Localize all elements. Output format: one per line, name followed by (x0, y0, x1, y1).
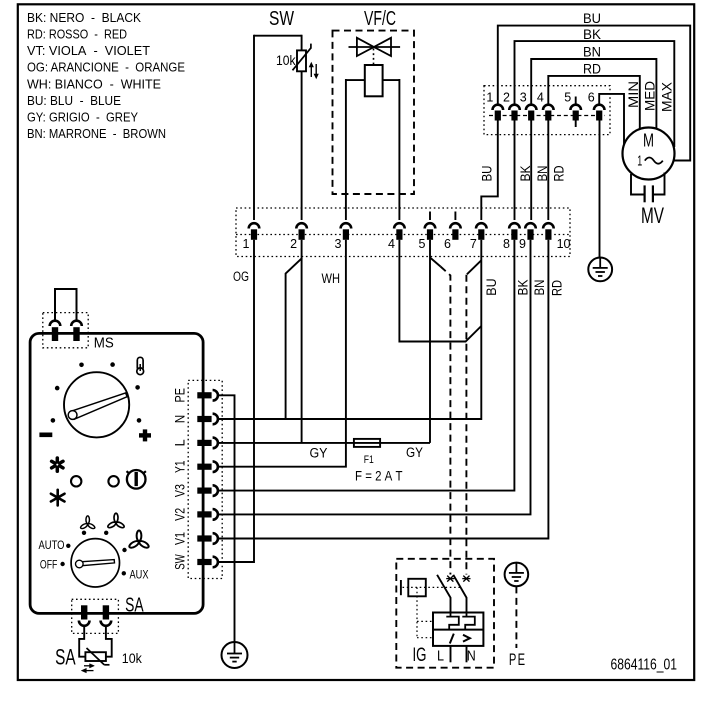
svg-text:WH: BIANCO - WHITE: WH: BIANCO - WHITE (27, 76, 161, 91)
svg-text:OG: ARANCIONE - ORANGE: OG: ARANCIONE - ORANGE (27, 60, 185, 75)
valve actuator dotted link (373, 49, 375, 65)
terminal block pin 1 (493, 105, 504, 110)
connector SA dotted box (72, 599, 119, 633)
fan dial position dots (60, 531, 126, 576)
wire strip 8 down to V3 row (BK) (218, 240, 515, 491)
svg-text:1: 1 (243, 237, 250, 251)
earth PE circle (505, 563, 529, 587)
svg-text:RD: RD (583, 60, 601, 76)
IG contact star L (446, 576, 454, 582)
svg-text:VF/C: VF/C (364, 8, 396, 30)
svg-text:4: 4 (537, 91, 544, 105)
terminal block pin 6 (594, 105, 605, 110)
wire strip 2 diagonal to N row (218, 240, 302, 419)
valve VF/C dashed enclosure (333, 31, 415, 194)
svg-text:BU: BU (583, 10, 601, 26)
svg-text:V3: V3 (173, 484, 188, 497)
svg-text:6864116_01: 6864116_01 (611, 657, 678, 674)
terminal panel L (197, 440, 211, 446)
switch IG dashed box (396, 559, 494, 668)
svg-text:AUTO: AUTO (39, 538, 65, 552)
svg-text:4: 4 (388, 237, 395, 251)
motor MV circle (623, 128, 675, 180)
valve body bowtie (349, 38, 401, 56)
IG coil square (401, 579, 426, 597)
svg-text:BU: BU (484, 278, 499, 295)
IG contact star N (462, 576, 470, 582)
svg-text:MIN: MIN (626, 81, 641, 108)
stub above strip pin 6 (454, 212, 456, 221)
terminal strip pin 9 (525, 223, 536, 228)
motor 1-phase mark (637, 154, 663, 170)
thermostat dial pointer (68, 393, 127, 420)
dashed wire PE down (515, 586, 517, 648)
svg-text:2: 2 (290, 237, 297, 251)
wire strip 10 down to V1 row (RD) (218, 240, 549, 539)
svg-text:MED: MED (642, 81, 657, 111)
svg-text:F1: F1 (364, 454, 374, 466)
svg-text:9: 9 (519, 237, 526, 251)
thermostat scale dots (51, 362, 142, 422)
svg-text:N: N (173, 415, 188, 424)
dashed wire strip 5 to IG L pole (430, 258, 441, 267)
label plus (139, 429, 151, 441)
icon small circle left (71, 476, 81, 486)
terminal strip pin 8 (509, 223, 520, 228)
terminal panel SW (197, 559, 211, 565)
wire strip 4 down and over to BU node (399, 240, 481, 342)
wire BK from block 2 to motor MAX side (515, 41, 675, 147)
svg-text:SW: SW (173, 554, 188, 570)
wire VF/C right to terminal 4 (398, 79, 400, 220)
svg-text:IG: IG (413, 645, 427, 666)
fan dial pointer (76, 560, 115, 568)
terminal strip pin 1 (249, 223, 260, 228)
terminal strip pin 3 (341, 223, 352, 228)
wire SA pin2 to thermistor (106, 626, 112, 657)
svg-text:F = 2 A T: F = 2 A T (355, 468, 403, 483)
svg-text:6: 6 (588, 91, 595, 105)
wire strip 1 down to SW row (OG) (218, 240, 254, 562)
svg-text:BK: BK (583, 26, 602, 42)
terminal strip dotted box (236, 208, 570, 257)
wire strip 7 down to N row (BU) (218, 240, 481, 419)
svg-text:L: L (173, 439, 188, 446)
wire strip 9 down to V2 row (BN) (218, 240, 531, 515)
svg-text:RD: RD (552, 165, 567, 181)
svg-text:MV: MV (641, 203, 664, 228)
arrows up-down beside SW thermistor (309, 63, 318, 79)
svg-text:GY: GRIGIO - GREY: GY: GRIGIO - GREY (27, 110, 138, 125)
stub above block pin 5 (575, 97, 577, 105)
svg-text:10k: 10k (122, 650, 143, 666)
svg-text:BN: BN (532, 280, 547, 296)
icon snowflake star heating (51, 490, 65, 506)
terminal strip pin 6 (450, 223, 461, 228)
stub below block pin 5 (575, 121, 577, 128)
terminal SA pin 1 (81, 605, 87, 619)
connector MS pins (55, 289, 77, 321)
icon snowflake cooling (52, 458, 63, 471)
thermistor SA 10k (85, 648, 109, 665)
wire VF/C top bar (346, 79, 400, 81)
IG dotted linkages (403, 587, 461, 637)
terminal block pin 2 (509, 105, 520, 110)
valve coil (365, 65, 383, 96)
svg-text:SA: SA (125, 595, 144, 617)
svg-text:10: 10 (557, 237, 571, 251)
svg-text:OG: OG (233, 269, 249, 284)
icon small circle right (108, 476, 118, 486)
dashed wire strip 7 to IG N pole (467, 260, 481, 274)
svg-text:V2: V2 (173, 508, 188, 521)
svg-text:BN: MARRONE - BROWN: BN: MARRONE - BROWN (27, 126, 166, 141)
terminal strip pin 7 (476, 223, 487, 228)
thermistor SW 10k (293, 44, 311, 72)
svg-text:SW: SW (269, 8, 294, 30)
svg-text:1: 1 (486, 91, 493, 105)
wire block 1 down to strip 7 (BU) (481, 121, 498, 221)
stub above strip pin 5 (429, 212, 431, 221)
svg-text:Y1: Y1 (173, 460, 188, 473)
earth symbol below block (588, 258, 612, 282)
terminal panel V2 (197, 511, 211, 517)
wire BN from block 3 to motor MED (531, 59, 656, 131)
svg-text:RD: ROSSO - RED: RD: ROSSO - RED (27, 27, 127, 42)
wire strip 3 down to Y1 row (WH) (218, 240, 346, 467)
earth symbol bottom left (222, 642, 248, 668)
svg-text:PE: PE (509, 650, 527, 669)
fuse F1 (354, 439, 380, 447)
wire IG N below (466, 646, 468, 662)
terminal panel Y1 (197, 464, 211, 470)
svg-text:MAX: MAX (660, 82, 675, 112)
svg-text:1: 1 (637, 154, 642, 170)
wire block 4 down to strip 10 (RD) (547, 121, 549, 221)
control panel outline (30, 333, 203, 613)
wire SW left to terminal 1 (253, 35, 255, 220)
wire block 6 down to earth (599, 121, 601, 258)
svg-text:MS: MS (94, 336, 114, 352)
wire block 3 down to strip 9 (BN) (530, 121, 532, 221)
terminal strip pin 10 (543, 223, 554, 228)
wire SW top (254, 35, 302, 37)
motor capacitor (631, 173, 665, 203)
terminal panel PE (197, 392, 211, 398)
IG release symbols (450, 634, 470, 644)
wire IG L below (450, 646, 452, 662)
svg-text:6: 6 (444, 237, 451, 251)
legend wire colour codes (27, 10, 185, 141)
svg-text:10k: 10k (276, 52, 296, 68)
svg-text:WH: WH (322, 271, 341, 286)
terminal block pin 5 (570, 105, 581, 110)
svg-text:3: 3 (520, 91, 527, 105)
icon adjust knob (127, 470, 146, 489)
svg-text:PE: PE (173, 388, 188, 403)
svg-text:GY: GY (310, 446, 328, 461)
svg-text:2: 2 (503, 91, 510, 105)
wire strip 2 straight down to L row (GY) (301, 258, 303, 443)
terminal MS pin 2 (71, 321, 82, 326)
terminal strip pin 5 (425, 223, 436, 228)
svg-text:BU: BU (480, 166, 495, 182)
wire RD from block 4 to motor (548, 76, 640, 131)
IG thermal release L (446, 613, 459, 630)
wire PE row to earth (218, 395, 235, 642)
terminal strip pin 2 (296, 223, 307, 228)
IG thermal release N (462, 613, 475, 630)
svg-text:BK: BK (515, 280, 530, 296)
terminal MS pin 1 (50, 321, 61, 326)
panel terminal column dotted box (188, 380, 222, 578)
svg-text:8: 8 (503, 237, 510, 251)
svg-text:5: 5 (564, 91, 571, 105)
thermostat dial (64, 372, 129, 437)
IG switch lever N (453, 575, 466, 613)
terminal block 6-pole dotted box (484, 86, 610, 135)
svg-text:SA: SA (55, 645, 76, 670)
terminal panel N (197, 416, 211, 422)
IG switch lever L (437, 575, 450, 613)
svg-text:AUX: AUX (130, 568, 149, 582)
svg-text:L: L (437, 648, 444, 665)
terminal block pin 4 (543, 105, 554, 110)
label minus (39, 433, 52, 438)
wire L row from fuse to strip 5 (380, 442, 430, 444)
connector MS dotted box (43, 313, 88, 348)
icon fan speed 3 (128, 531, 149, 550)
svg-text:BN: BN (583, 44, 601, 60)
svg-text:M: M (643, 131, 654, 151)
svg-text:5: 5 (419, 237, 426, 251)
svg-text:N: N (467, 648, 476, 665)
wire SW right to terminal 2 (301, 35, 303, 220)
wire strip 5 down to fuse line (GY) (429, 240, 431, 443)
terminal block dashed midline (489, 115, 605, 117)
svg-text:GY: GY (406, 445, 423, 460)
IG breaker box (433, 613, 483, 646)
terminal panel V1 (197, 535, 211, 541)
thermometer icon (137, 357, 144, 374)
svg-text:RD: RD (549, 280, 564, 296)
wire N row to L row junction none - L row with fuse (218, 442, 354, 444)
terminal SA pin 2 (103, 605, 109, 619)
svg-text:BK: NERO - BLACK: BK: NERO - BLACK (27, 10, 141, 25)
wire MIN from block 6 to motor (599, 94, 624, 150)
svg-text:3: 3 (334, 237, 341, 251)
terminal strip dotted midline (236, 234, 570, 236)
terminal panel V3 (197, 488, 211, 494)
svg-text:7: 7 (470, 237, 477, 251)
icon fan speed 2 (107, 513, 125, 529)
arrow adjust mark (81, 664, 94, 673)
terminal strip pin 4 (394, 223, 405, 228)
svg-text:OFF: OFF (40, 558, 58, 572)
terminal block pin 3 (526, 105, 537, 110)
wire BU from block 1 to motor common (498, 26, 690, 161)
icon fan speed 1 (80, 516, 96, 530)
wire SA pin1 to thermistor (79, 626, 85, 657)
fan dial (71, 539, 119, 587)
svg-text:V1: V1 (173, 532, 188, 545)
svg-text:VT: VIOLA - VIOLET: VT: VIOLA - VIOLET (27, 43, 150, 58)
svg-text:BU: BLU - BLUE: BU: BLU - BLUE (27, 93, 121, 108)
wire block 2 down to strip 8 (BK) (514, 121, 516, 221)
wire VF/C left to terminal 3 (345, 79, 347, 220)
